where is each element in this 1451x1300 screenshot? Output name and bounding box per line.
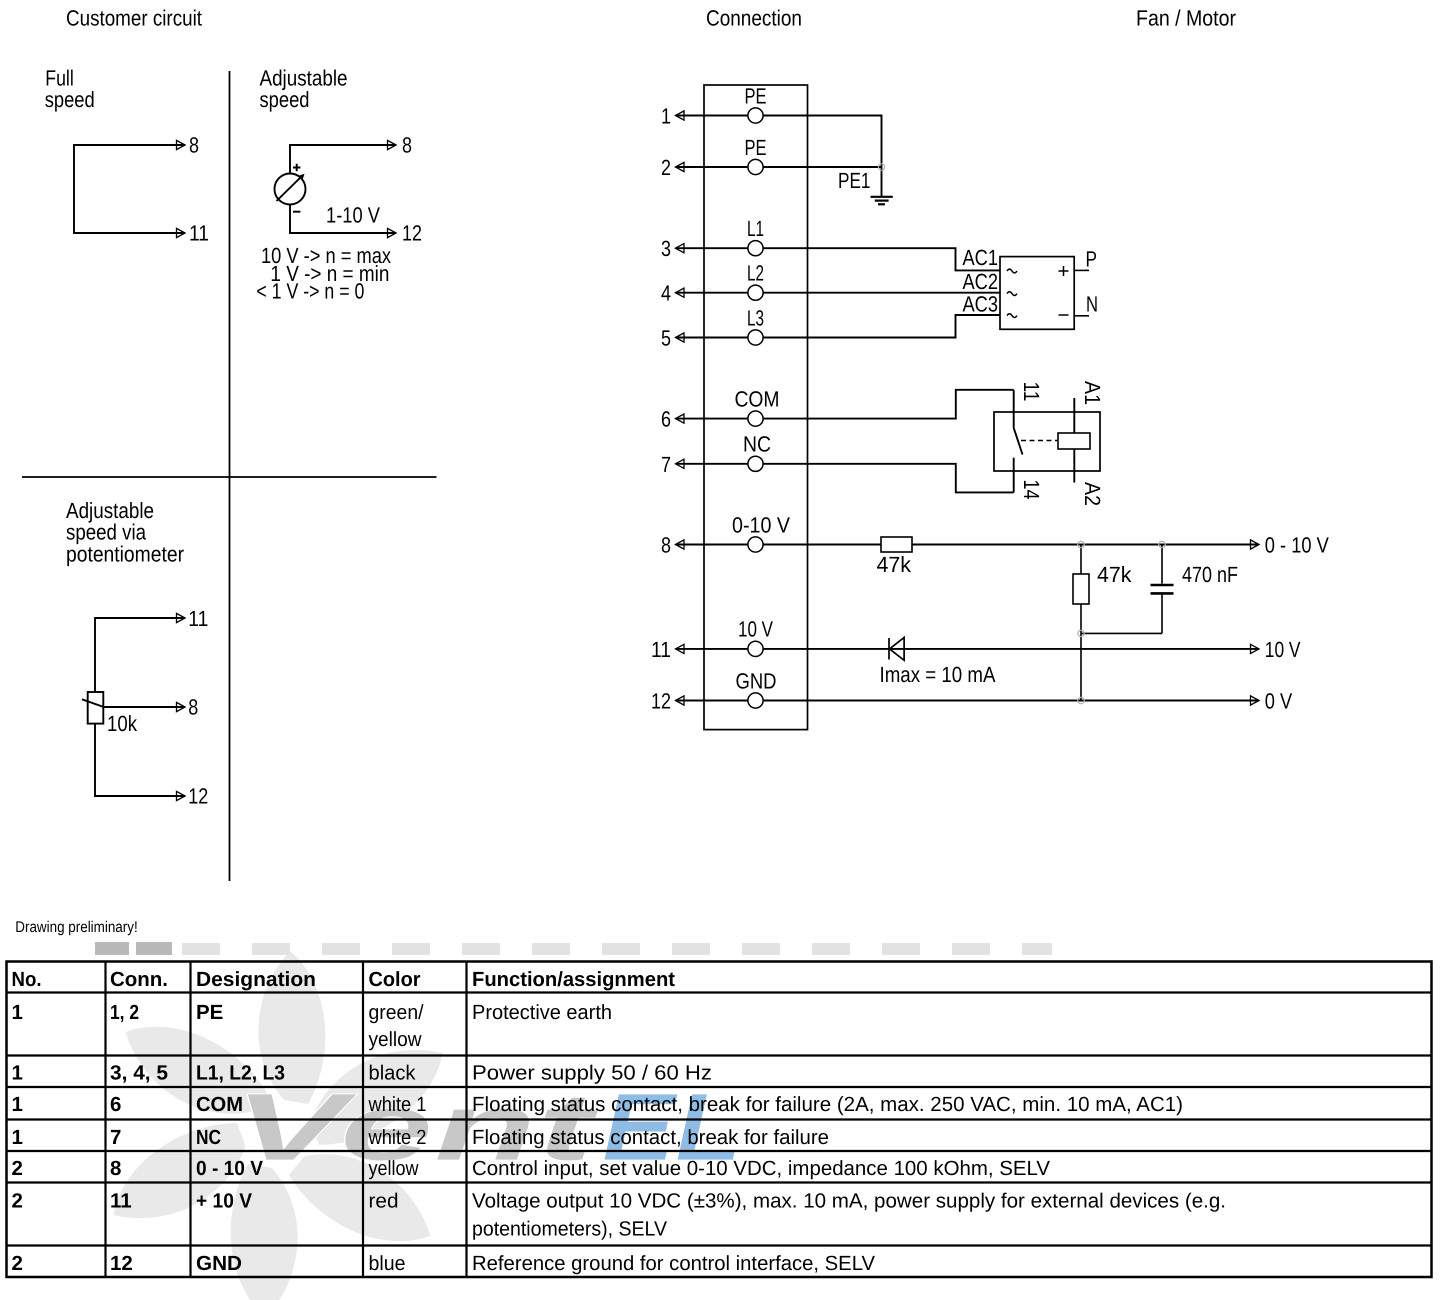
svg-text:A1: A1: [1080, 381, 1105, 405]
svg-text:PE1: PE1: [838, 168, 871, 193]
svg-text:6: 6: [661, 407, 671, 432]
svg-text:AC3: AC3: [963, 292, 999, 317]
svg-text:10 V: 10 V: [738, 617, 773, 642]
svg-text:L1: L1: [747, 216, 764, 241]
svg-text:0 - 10 V: 0 - 10 V: [1265, 533, 1329, 558]
svg-text:47k: 47k: [1097, 562, 1132, 587]
svg-text:11: 11: [651, 637, 671, 662]
svg-text:white 2: white 2: [368, 1126, 427, 1149]
svg-text:8: 8: [402, 133, 412, 158]
svg-text:Drawing preliminary!: Drawing preliminary!: [15, 919, 137, 936]
svg-text:PE: PE: [196, 1001, 223, 1024]
svg-text:12: 12: [188, 784, 208, 809]
svg-text:L1, L2, L3: L1, L2, L3: [196, 1062, 285, 1085]
svg-text:0 - 10 V: 0 - 10 V: [196, 1157, 263, 1180]
svg-text:Reference ground for control i: Reference ground for control interface, …: [472, 1252, 875, 1275]
svg-text:red: red: [369, 1190, 399, 1213]
svg-text:green/: green/: [369, 1001, 424, 1024]
svg-text:0-10 V: 0-10 V: [732, 512, 790, 537]
svg-text:Color: Color: [369, 968, 421, 991]
svg-text:8: 8: [110, 1157, 121, 1180]
svg-text:14: 14: [1019, 480, 1044, 500]
svg-text:AC1: AC1: [963, 245, 999, 270]
svg-text:yellow: yellow: [369, 1028, 422, 1051]
svg-text:Power supply 50 / 60 Hz: Power supply 50 / 60 Hz: [472, 1062, 712, 1085]
svg-text:1: 1: [12, 1001, 23, 1024]
svg-text:speed: speed: [45, 87, 95, 112]
svg-text:AC2: AC2: [963, 269, 999, 294]
svg-text:Imax = 10 mA: Imax = 10 mA: [880, 662, 996, 687]
svg-text:8: 8: [189, 133, 199, 158]
svg-text:NC: NC: [743, 432, 771, 457]
svg-text:L2: L2: [747, 261, 764, 286]
svg-text:0 V: 0 V: [1265, 689, 1293, 714]
svg-text:No.: No.: [12, 968, 42, 991]
svg-text:Customer circuit: Customer circuit: [66, 6, 202, 31]
svg-text:L3: L3: [747, 305, 764, 330]
svg-text:11: 11: [1019, 382, 1044, 402]
svg-text:Protective earth: Protective earth: [472, 1001, 612, 1024]
svg-text:PE: PE: [745, 135, 767, 160]
svg-text:6: 6: [110, 1093, 121, 1116]
svg-text:1: 1: [12, 1093, 23, 1116]
svg-text:1, 2: 1, 2: [110, 1001, 139, 1024]
svg-text:Floating status contact, break: Floating status contact, break for failu…: [472, 1126, 829, 1149]
svg-text:white 1: white 1: [368, 1093, 427, 1116]
svg-text:Voltage output 10 VDC (±3%), m: Voltage output 10 VDC (±3%), max. 10 mA,…: [472, 1190, 1226, 1213]
svg-text:2: 2: [12, 1157, 23, 1180]
svg-text:12: 12: [651, 689, 671, 714]
svg-text:blue: blue: [369, 1252, 406, 1275]
svg-text:Fan / Motor: Fan / Motor: [1136, 6, 1236, 31]
svg-text:Conn.: Conn.: [110, 968, 168, 991]
svg-text:N: N: [1086, 292, 1098, 317]
svg-text:10k: 10k: [107, 711, 138, 736]
svg-text:yellow: yellow: [369, 1157, 419, 1180]
svg-text:GND: GND: [736, 668, 777, 693]
svg-text:3, 4, 5: 3, 4, 5: [110, 1062, 168, 1085]
svg-text:Control input, set value 0-10: Control input, set value 0-10 VDC, imped…: [472, 1157, 1050, 1180]
svg-text:2: 2: [12, 1190, 23, 1213]
svg-text:Designation: Designation: [196, 968, 316, 991]
svg-text:potentiometer: potentiometer: [66, 541, 184, 566]
svg-text:Function/assignment: Function/assignment: [472, 968, 675, 991]
svg-text:black: black: [369, 1062, 417, 1085]
svg-text:5: 5: [661, 326, 671, 351]
svg-text:PE: PE: [745, 83, 767, 108]
svg-text:GND: GND: [196, 1252, 242, 1275]
svg-text:2: 2: [661, 155, 671, 180]
svg-text:8: 8: [661, 533, 671, 558]
svg-text:1: 1: [12, 1062, 23, 1085]
svg-text:COM: COM: [196, 1093, 243, 1116]
svg-text:8: 8: [188, 695, 198, 720]
svg-text:NC: NC: [196, 1126, 221, 1149]
svg-text:10 V: 10 V: [1265, 637, 1301, 662]
svg-text:12: 12: [402, 221, 422, 246]
svg-text:11: 11: [188, 606, 208, 631]
svg-text:1-10 V: 1-10 V: [326, 203, 380, 228]
svg-text:potentiometers), SELV: potentiometers), SELV: [472, 1218, 667, 1241]
svg-text:470 nF: 470 nF: [1182, 562, 1238, 587]
svg-text:P: P: [1086, 247, 1098, 272]
svg-text:4: 4: [661, 281, 671, 306]
svg-text:A2: A2: [1080, 482, 1105, 506]
svg-text:COM: COM: [735, 386, 780, 411]
svg-text:7: 7: [110, 1126, 121, 1149]
svg-text:47k: 47k: [877, 552, 912, 577]
svg-text:7: 7: [661, 452, 671, 477]
svg-text:11: 11: [110, 1190, 132, 1213]
svg-text:+ 10 V: + 10 V: [196, 1190, 252, 1213]
svg-text:3: 3: [661, 236, 671, 261]
svg-text:Connection: Connection: [706, 6, 802, 31]
svg-text:speed: speed: [260, 87, 310, 112]
svg-text:1: 1: [661, 104, 671, 129]
svg-text:12: 12: [110, 1252, 133, 1275]
svg-text:1: 1: [12, 1126, 23, 1149]
svg-text:2: 2: [12, 1252, 23, 1275]
svg-text:< 1 V -> n = 0: < 1 V -> n = 0: [256, 279, 364, 304]
svg-text:Floating status contact, break: Floating status contact, break for failu…: [472, 1093, 1183, 1116]
svg-text:11: 11: [189, 221, 209, 246]
